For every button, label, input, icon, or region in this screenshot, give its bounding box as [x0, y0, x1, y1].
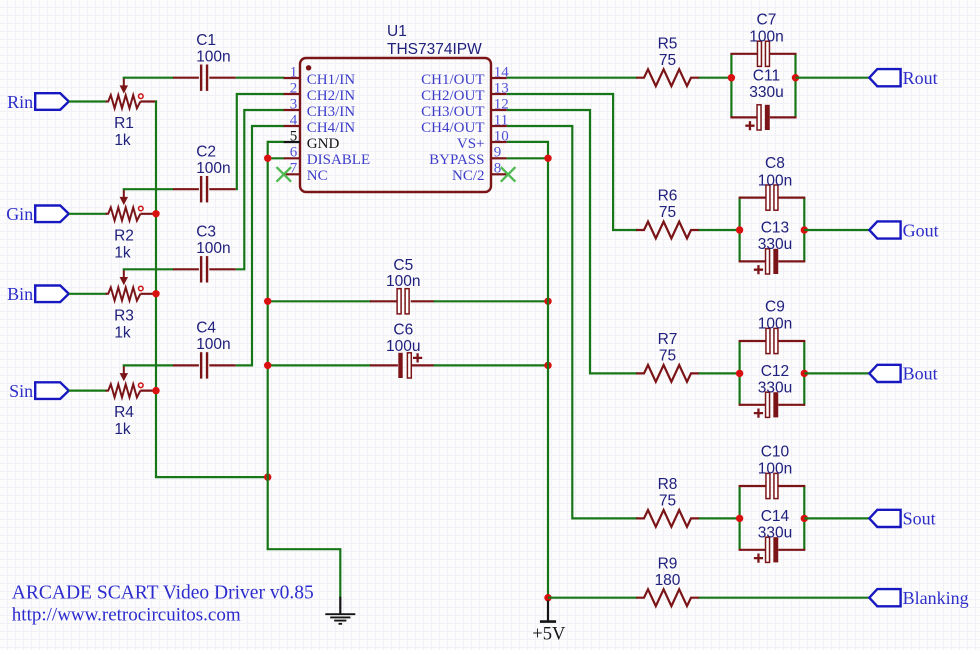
svg-text:100n: 100n: [758, 461, 792, 478]
junction R2 terminal: [152, 210, 159, 217]
junction cap block right: [792, 74, 799, 81]
wire Rin to R1: [69, 100, 107, 102]
svg-text:U1: U1: [387, 23, 407, 40]
wire pin to R5: [507, 77, 637, 79]
wire cap block left vertical: [738, 341, 740, 405]
capacitor C5: [370, 300, 397, 302]
svg-text:1k: 1k: [114, 132, 131, 149]
pin 7 stub: [284, 173, 301, 175]
svg-text:5: 5: [290, 128, 298, 144]
svg-text:9: 9: [494, 145, 502, 161]
junction R6 cap block left: [736, 226, 743, 233]
port connector Rout: [869, 69, 900, 86]
svg-text:1k: 1k: [114, 244, 131, 261]
svg-text:+5V: +5V: [532, 625, 566, 645]
port connector Sin: [35, 382, 69, 399]
C13 plus sign: [754, 265, 763, 274]
port connector Gout: [869, 221, 900, 238]
svg-text:THS7374IPW: THS7374IPW: [387, 41, 482, 58]
capacitor C9: [739, 340, 766, 342]
resistor R7: [636, 365, 700, 382]
port connector Blanking: [869, 589, 900, 606]
R1 right lead wire: [140, 100, 157, 102]
junction R7 cap block left: [736, 370, 743, 377]
wire pin to row R6: [507, 94, 637, 230]
R1 wiper arrow: [123, 78, 125, 86]
R4 wiper arrow: [123, 365, 125, 373]
capacitor C8: [739, 197, 766, 199]
wire Sin to R4: [69, 390, 107, 392]
resistor R8: [636, 510, 700, 527]
R4 right lead wire: [140, 390, 157, 392]
wire cap block to Gout: [804, 229, 869, 231]
wire pin to row R8: [507, 126, 637, 518]
svg-text:C6: C6: [393, 322, 413, 339]
svg-text:100n: 100n: [758, 172, 792, 189]
wire VS+ pin 10: [507, 142, 548, 599]
svg-text:C12: C12: [761, 363, 789, 380]
svg-text:C11: C11: [753, 67, 780, 84]
capacitor C1: [173, 77, 199, 79]
R2 wiper arrow: [123, 189, 125, 197]
port connector Rin: [35, 93, 69, 110]
svg-text:Rout: Rout: [903, 68, 938, 88]
potentiometer R2: [106, 207, 141, 220]
svg-text:2: 2: [290, 80, 298, 96]
junction ground net bottom: [264, 473, 271, 480]
svg-text:C13: C13: [761, 220, 789, 237]
svg-text:100n: 100n: [749, 29, 783, 46]
svg-text:330u: 330u: [758, 380, 792, 397]
svg-text:BYPASS: BYPASS: [429, 152, 484, 168]
no-connect X pin 8: [501, 167, 516, 182]
svg-text:100n: 100n: [758, 316, 792, 333]
svg-text:3: 3: [290, 96, 298, 112]
svg-text:10: 10: [494, 128, 509, 144]
svg-text:CH1/OUT: CH1/OUT: [421, 72, 484, 88]
no-connect X pin 7: [277, 167, 292, 182]
C12 plus sign: [754, 409, 763, 418]
svg-text:1: 1: [290, 64, 298, 80]
R2 right lead wire: [140, 213, 157, 215]
capacitor C2: [173, 188, 199, 190]
capacitor C12 polarized: [739, 404, 766, 406]
svg-text:CH2/IN: CH2/IN: [307, 88, 356, 104]
svg-text:100n: 100n: [196, 336, 230, 353]
junction C5 left: [264, 298, 271, 305]
wire cap block to Rout: [796, 77, 870, 79]
wire ground net elbow: [267, 549, 341, 598]
pin 8 stub: [491, 173, 507, 175]
port connector Bout: [869, 365, 900, 382]
junction C6 left: [264, 362, 271, 369]
svg-text:Bout: Bout: [903, 364, 938, 384]
junction R4 terminal: [152, 387, 159, 394]
wire C3 to pin: [236, 110, 284, 269]
svg-text:75: 75: [659, 52, 676, 69]
R1 terminal circle: [139, 94, 144, 99]
svg-text:R5: R5: [658, 35, 678, 52]
junction pin9 supply net: [544, 155, 551, 162]
wire +5V to R9: [548, 597, 637, 599]
wire cap block to Bout: [804, 372, 869, 374]
svg-text:180: 180: [655, 572, 681, 589]
svg-text:NC: NC: [307, 168, 328, 184]
wire R4 wiper to C4: [123, 364, 174, 366]
IC U1 body: [300, 58, 491, 192]
svg-text:Bin: Bin: [7, 284, 33, 304]
wire pin to row R7: [507, 110, 637, 373]
pin 3 stub: [284, 109, 301, 111]
pin 12 stub: [491, 109, 507, 111]
svg-text:Sout: Sout: [903, 509, 936, 529]
svg-text:GND: GND: [307, 136, 340, 152]
capacitor C13 polarized: [739, 260, 766, 262]
wire R7 to cap block: [699, 372, 740, 374]
svg-text:8: 8: [494, 161, 502, 177]
wire cap block left vertical: [730, 54, 732, 118]
svg-text:http://www.retrocircuitos.com: http://www.retrocircuitos.com: [12, 605, 241, 626]
wire Bin to R3: [69, 293, 107, 295]
svg-text:ARCADE SCART Video Driver v0.8: ARCADE SCART Video Driver v0.85: [12, 583, 314, 604]
svg-text:CH1/IN: CH1/IN: [307, 72, 356, 88]
pin 4 stub: [284, 125, 301, 127]
C11 plus sign: [745, 121, 754, 130]
svg-text:330u: 330u: [749, 84, 783, 101]
svg-text:100n: 100n: [196, 160, 230, 177]
wire pin to R8: [636, 517, 637, 519]
svg-text:R3: R3: [114, 307, 134, 324]
capacitor C7: [730, 53, 757, 55]
svg-text:C2: C2: [196, 143, 216, 160]
R2 terminal circle: [139, 206, 144, 211]
svg-text:R7: R7: [658, 331, 678, 348]
resistor R6: [636, 222, 700, 239]
pin 1 stub: [284, 77, 301, 79]
R3 terminal circle: [139, 286, 144, 291]
svg-text:R9: R9: [658, 555, 678, 572]
resistor R9: [636, 589, 700, 606]
svg-text:CH3/OUT: CH3/OUT: [421, 104, 484, 120]
pin 5 stub: [284, 141, 301, 143]
svg-text:Rin: Rin: [7, 92, 33, 112]
junction C5 right: [544, 298, 551, 305]
svg-text:Sin: Sin: [9, 381, 33, 401]
wire ground net vertical: [267, 141, 269, 549]
pin 2 stub: [284, 93, 301, 95]
potentiometer R1: [106, 95, 141, 108]
svg-text:100n: 100n: [196, 240, 230, 257]
svg-text:C4: C4: [196, 320, 216, 337]
C14 plus sign: [754, 554, 763, 563]
svg-text:100n: 100n: [386, 273, 420, 290]
svg-text:75: 75: [659, 493, 676, 510]
svg-text:100n: 100n: [196, 49, 230, 66]
wire C2 to pin: [236, 94, 284, 189]
pin 6 stub: [284, 157, 301, 159]
svg-text:C1: C1: [196, 32, 216, 49]
wire BYPASS pin 9: [507, 157, 548, 159]
wire R2 wiper to C2: [123, 188, 174, 190]
svg-text:4: 4: [290, 112, 298, 128]
svg-text:R1: R1: [114, 115, 134, 132]
wire C4 to pin: [236, 126, 284, 365]
wire R8 to cap block: [699, 517, 740, 519]
svg-text:C5: C5: [393, 257, 413, 274]
power symbol +5V: [547, 601, 549, 622]
wire R6 to cap block: [699, 229, 740, 231]
wire C5 left: [268, 300, 371, 302]
R3 right lead wire: [140, 293, 157, 295]
capacitor C14 polarized: [739, 549, 766, 551]
wire C5 right: [434, 300, 549, 302]
svg-text:R8: R8: [658, 476, 678, 493]
junction cap block right: [801, 370, 808, 377]
wire C1 to pin 1: [236, 77, 284, 79]
svg-text:CH4/IN: CH4/IN: [307, 120, 356, 136]
svg-text:C9: C9: [765, 299, 785, 316]
wire cap block right vertical: [803, 341, 805, 405]
svg-text:Gout: Gout: [903, 220, 939, 240]
wire Gin to R2: [69, 213, 107, 215]
svg-text:R6: R6: [658, 188, 678, 205]
svg-text:NC/2: NC/2: [452, 168, 485, 184]
wire C6 right: [434, 364, 549, 366]
junction cap block right: [801, 515, 808, 522]
svg-text:75: 75: [659, 348, 676, 365]
port connector Bin: [35, 286, 69, 303]
U1 pin1 marker dot: [306, 65, 311, 70]
C6 plus sign: [413, 353, 422, 362]
resistor R5: [636, 69, 700, 86]
wire GND pin 5: [268, 141, 284, 143]
port connector Sout: [869, 510, 900, 527]
wire cap block right vertical: [803, 486, 805, 550]
junction R5 cap block left: [728, 74, 735, 81]
wire cap block left vertical: [738, 486, 740, 550]
svg-text:C10: C10: [761, 444, 790, 461]
wire DISABLE pin 6: [268, 157, 284, 159]
svg-text:R2: R2: [114, 227, 134, 244]
svg-text:13: 13: [494, 80, 509, 96]
svg-text:DISABLE: DISABLE: [307, 152, 370, 168]
svg-text:Gin: Gin: [6, 204, 33, 224]
wire bus to ground net horizontal: [155, 476, 268, 478]
port connector Gin: [35, 206, 69, 223]
wire R9 to Blanking: [699, 597, 870, 599]
potentiometer R4: [106, 384, 141, 397]
pin 11 stub: [491, 125, 507, 127]
pin 14 stub: [491, 77, 507, 79]
svg-text:CH4/OUT: CH4/OUT: [421, 120, 484, 136]
ground symbol: [339, 597, 341, 614]
wire R5 to cap block: [699, 77, 732, 79]
wire C6 left: [268, 364, 371, 366]
svg-text:11: 11: [494, 112, 508, 128]
capacitor C10: [739, 485, 766, 487]
junction supply +5V: [544, 594, 551, 601]
svg-text:12: 12: [494, 96, 509, 112]
svg-text:100u: 100u: [386, 338, 420, 355]
pin 9 stub: [491, 157, 507, 159]
svg-text:75: 75: [659, 204, 676, 221]
svg-text:R4: R4: [114, 404, 134, 421]
svg-text:C8: C8: [765, 155, 785, 172]
svg-text:CH3/IN: CH3/IN: [307, 104, 356, 120]
junction pin6 ground net: [264, 155, 271, 162]
svg-text:CH2/OUT: CH2/OUT: [421, 88, 484, 104]
junction cap block right: [801, 226, 808, 233]
svg-text:VS+: VS+: [457, 136, 485, 152]
junction R3 terminal: [152, 290, 159, 297]
svg-text:1k: 1k: [114, 324, 131, 341]
capacitor C11 polarized: [730, 116, 756, 118]
capacitor C4: [173, 364, 199, 366]
wire R1 wiper to C1: [123, 77, 174, 79]
capacitor C6 polarized: [370, 364, 398, 366]
pin 10 stub: [491, 141, 507, 143]
svg-text:330u: 330u: [758, 236, 792, 253]
wire cap block right vertical: [794, 54, 796, 118]
R4 terminal circle: [139, 383, 144, 388]
wire pot terminal bus vertical: [155, 100, 157, 477]
wire cap block right vertical: [803, 198, 805, 262]
svg-text:6: 6: [290, 145, 298, 161]
svg-text:C14: C14: [761, 508, 790, 525]
capacitor C3: [173, 268, 199, 270]
wire R3 wiper to C3: [123, 268, 174, 270]
svg-text:C3: C3: [196, 224, 216, 241]
svg-text:330u: 330u: [758, 525, 792, 542]
wire cap block left vertical: [738, 198, 740, 262]
junction C6 right: [544, 362, 551, 369]
svg-text:1k: 1k: [114, 421, 131, 438]
potentiometer R3: [106, 287, 141, 300]
wire pin to R6: [636, 229, 637, 231]
svg-text:C7: C7: [757, 11, 777, 28]
junction R8 cap block left: [736, 515, 743, 522]
R3 wiper arrow: [123, 269, 125, 277]
wire cap block to Sout: [804, 517, 869, 519]
wire pin to R7: [636, 372, 637, 374]
pin 13 stub: [491, 93, 507, 95]
svg-text:Blanking: Blanking: [903, 588, 969, 608]
